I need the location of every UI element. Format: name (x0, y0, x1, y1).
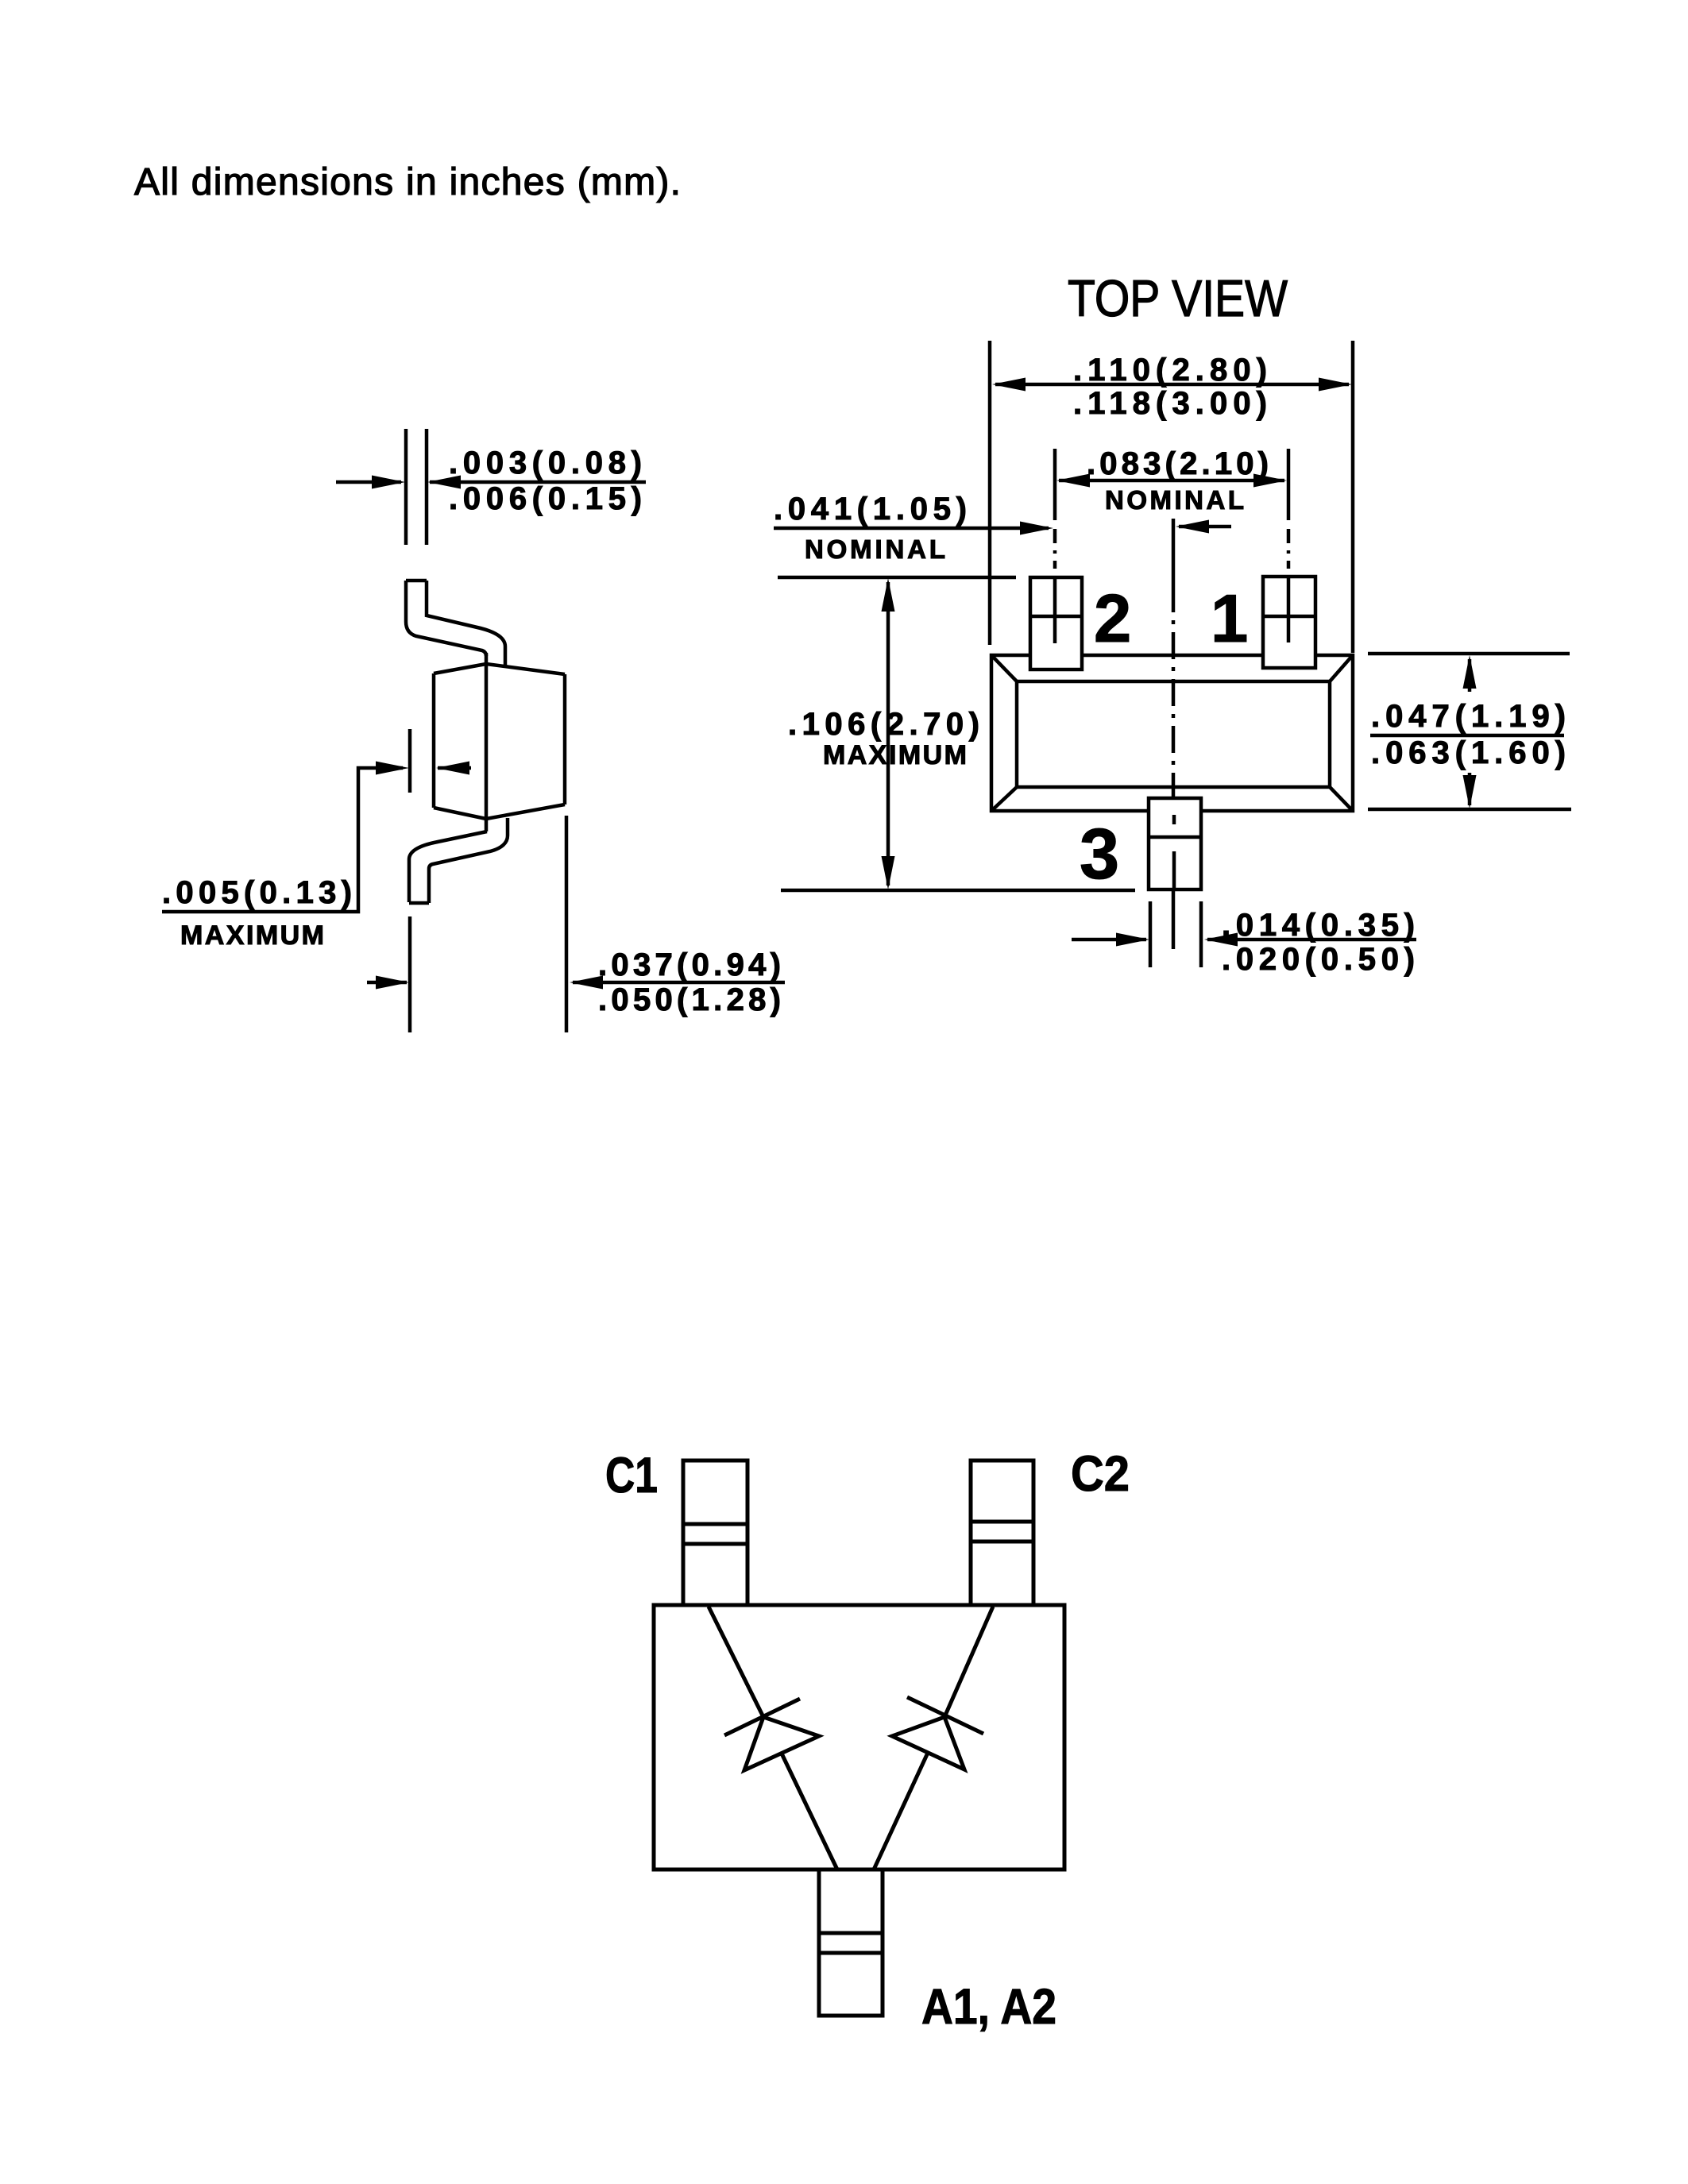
dimension line .110 (995, 383, 1349, 387)
.047 up arrow line (1468, 659, 1472, 692)
arrowhead .005 left (376, 762, 409, 775)
body right face top edge (486, 664, 565, 674)
diode D1 triangle (744, 1717, 819, 1770)
SCHEMATIC (654, 1461, 1064, 2016)
extension line bottom-right for .037 (565, 816, 569, 1032)
svg-text:C2: C2 (1071, 1446, 1130, 1502)
arrowhead .110 left (992, 378, 1026, 392)
arrowhead .047 down (1463, 775, 1477, 808)
second arrow line of .005 (438, 766, 471, 770)
.106 bottom reference line (781, 889, 1135, 893)
svg-text:MAXIMUM: MAXIMUM (823, 740, 967, 770)
dimension leader left of .003 (336, 480, 401, 484)
body left face bottom edge (434, 808, 486, 819)
dimension labels (162, 353, 1566, 1017)
diode D1 cathode bar (724, 1699, 800, 1735)
body outer rectangle (991, 655, 1353, 811)
body left face top edge (434, 664, 486, 673)
center arrow line (1179, 525, 1231, 529)
extension line pin1 center (solid part) (1287, 449, 1291, 520)
extension line bottom-left for .037 (408, 916, 412, 1032)
pin C2 (971, 1461, 1033, 1605)
arrowhead .106 down (882, 856, 895, 889)
.014 extension line right (1199, 901, 1203, 967)
.014 extension line left (1149, 901, 1153, 967)
.014 arrow line right (fraction bar) (1207, 938, 1416, 942)
diode D1 cathode lead (709, 1607, 763, 1717)
pin A1 A2 (819, 1870, 883, 2016)
arrowhead .041 leader (1020, 522, 1053, 535)
.047 fraction bar (1370, 734, 1564, 738)
diode D2 cathode bar (907, 1697, 983, 1734)
extension line lead-thickness left (404, 429, 408, 545)
pin 1 pad (1263, 577, 1315, 668)
bevel bottom-right (1330, 787, 1353, 811)
bevel bottom-left (991, 787, 1017, 811)
extension line left for .110 (988, 341, 992, 645)
dimension line .083 (1059, 479, 1284, 483)
extension line lead-thickness right (425, 429, 429, 545)
arrowhead .014 right (1204, 933, 1238, 947)
pin 3 pad mid line (1149, 835, 1201, 839)
.106 top reference line (778, 576, 1016, 580)
diode D2 triangle (892, 1717, 964, 1769)
svg-text:MAXIMUM: MAXIMUM (180, 920, 324, 951)
extension line pin1 center (dash-dot) (1287, 529, 1291, 569)
body left edge (432, 673, 436, 808)
diode D2 cathode lead (944, 1607, 993, 1717)
arrowhead .110 right (1319, 378, 1352, 392)
.014 arrow line left (1072, 938, 1146, 942)
arrowhead .047 up (1463, 655, 1477, 689)
pin 2 pad (1030, 577, 1082, 669)
bevel top-right (1330, 655, 1353, 681)
dimension leader right of .003 (fraction bar) (430, 480, 646, 484)
pin 1 pad mid line (1263, 615, 1315, 619)
.047 bottom reference line (1368, 808, 1571, 812)
package center line dash-dot (1172, 519, 1176, 585)
body inner rectangle (1017, 681, 1330, 787)
body right face bottom edge (486, 805, 565, 819)
arrowhead .003 right (427, 476, 461, 489)
svg-text:All dimensions in inches (mm).: All dimensions in inches (mm). (134, 161, 681, 203)
package body outline (654, 1605, 1064, 1870)
top gull-wing lead outline (406, 579, 427, 583)
arrowhead .037 left (376, 976, 409, 990)
pin 3 pad centerline dot (1172, 815, 1176, 824)
svg-text:3: 3 (1080, 815, 1119, 894)
pin 2 pad centerline (1053, 577, 1057, 643)
bevel top-left (991, 655, 1017, 681)
arrowhead .014 left (1116, 933, 1149, 947)
pin C1 (683, 1461, 747, 1605)
pin 3 pad (1149, 798, 1201, 889)
arrowhead .005 right (436, 762, 469, 775)
pin 2 pad mid line (1030, 615, 1082, 619)
diode D1 anode lead (782, 1754, 837, 1870)
leader for .005 label (162, 768, 403, 912)
arrow line right of .037 (fraction bar) (573, 981, 785, 985)
arrowhead .037 right (570, 976, 603, 990)
svg-text:C1: C1 (605, 1448, 658, 1503)
bottom gull-wing lead outline (409, 832, 487, 902)
arrowhead .106 up (882, 578, 895, 612)
svg-text:2: 2 (1094, 581, 1131, 657)
pin 1 pad centerline (1287, 577, 1291, 642)
.047 top reference line (1368, 652, 1570, 656)
svg-text:1: 1 (1211, 581, 1248, 657)
extension line pin2 center (solid part) (1053, 449, 1057, 520)
tick line for .005 dim (408, 729, 412, 793)
svg-text:A1, A2: A1, A2 (921, 1979, 1056, 2035)
pin numerals (1080, 581, 1248, 894)
schematic labels (605, 1446, 1130, 2035)
.047 down arrow line (1468, 773, 1472, 805)
arrowhead .083 left (1056, 474, 1090, 488)
diode D2 anode lead (874, 1753, 928, 1870)
svg-text:TOP VIEW: TOP VIEW (1068, 269, 1288, 327)
body front-left vertical edge (485, 653, 489, 832)
arrowhead center pointer (1176, 520, 1209, 534)
arrow line left of .037 (367, 981, 407, 985)
extension line pin2 center (dash-dot) (1053, 529, 1057, 569)
extension line right for .110 (1351, 341, 1355, 653)
body right edge (563, 674, 567, 805)
leader line .041 (774, 527, 1049, 531)
arrowhead .003 left (372, 476, 405, 489)
.106 vertical dimension line (886, 582, 890, 886)
pin 3 pad centerline dash (1172, 851, 1176, 889)
arrowhead .083 right (1253, 474, 1287, 488)
arrowheads (372, 378, 1477, 990)
